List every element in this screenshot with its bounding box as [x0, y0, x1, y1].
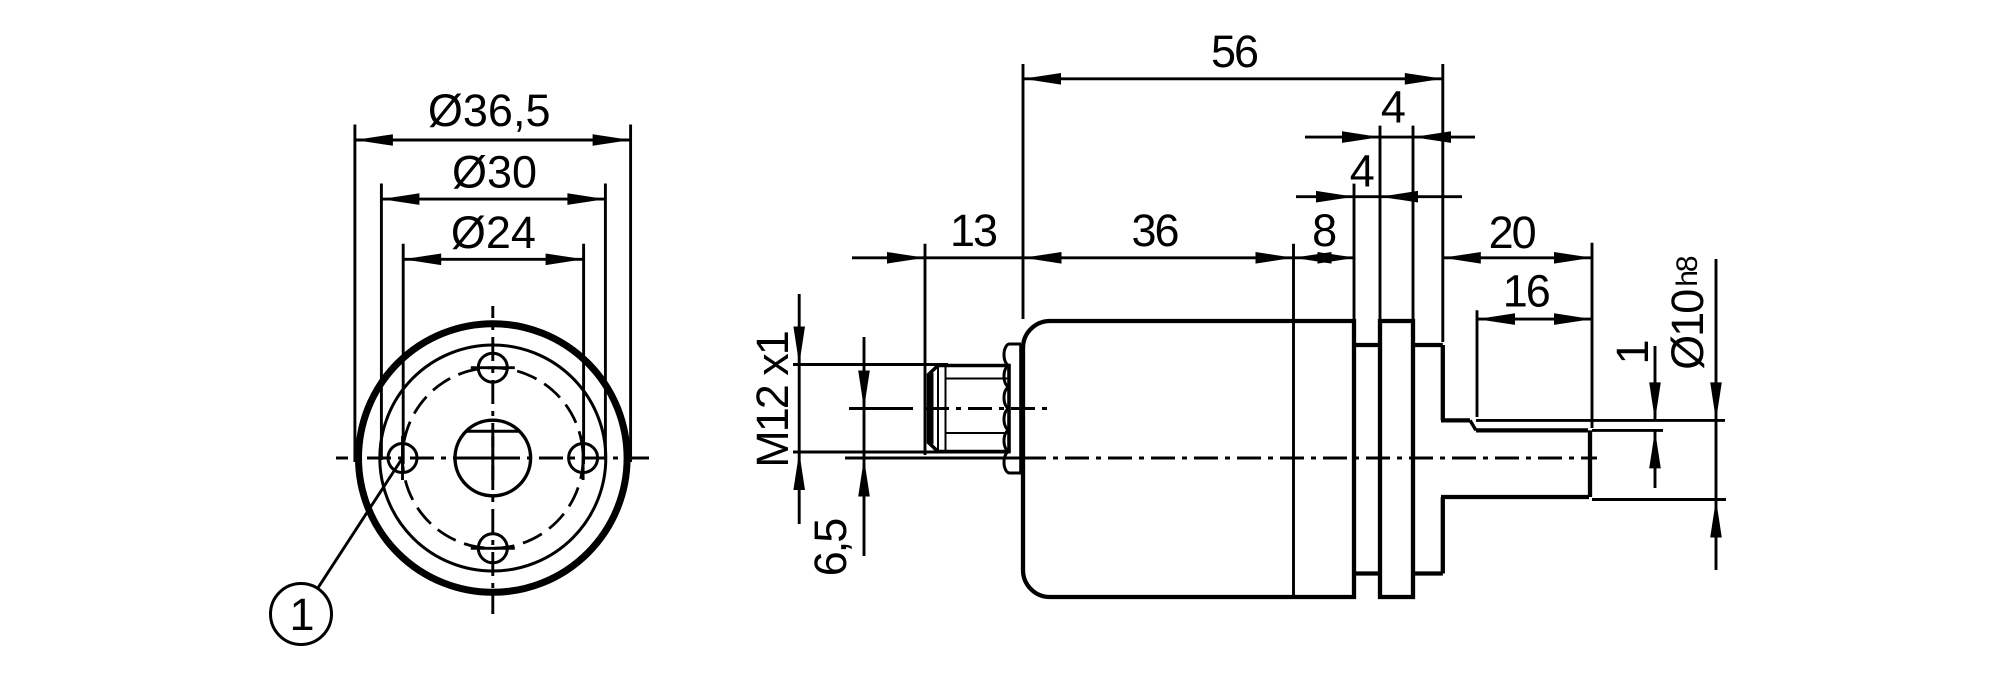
svg-text:4: 4 — [1381, 82, 1405, 133]
svg-text:1: 1 — [1607, 341, 1658, 364]
svg-text:20: 20 — [1489, 207, 1536, 258]
svg-text:13: 13 — [950, 205, 997, 256]
svg-text:4: 4 — [1350, 146, 1374, 197]
svg-text:56: 56 — [1211, 26, 1258, 77]
svg-text:Ø24: Ø24 — [451, 207, 536, 258]
svg-text:16: 16 — [1503, 266, 1550, 317]
svg-text:1: 1 — [289, 589, 312, 640]
svg-text:M12 x1: M12 x1 — [747, 332, 798, 468]
svg-text:Ø36,5: Ø36,5 — [428, 85, 551, 136]
svg-text:Ø30: Ø30 — [452, 147, 537, 198]
svg-text:6,5: 6,5 — [805, 519, 856, 577]
svg-text:8: 8 — [1312, 205, 1336, 256]
svg-text:36: 36 — [1131, 205, 1178, 256]
